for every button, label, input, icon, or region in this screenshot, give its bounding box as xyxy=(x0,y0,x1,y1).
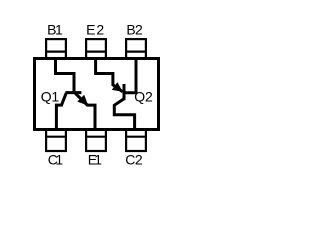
svg-text:C2: C2 xyxy=(125,152,143,168)
svg-text:Q2: Q2 xyxy=(134,89,153,105)
svg-text:E1: E1 xyxy=(88,152,103,168)
svg-text:C1: C1 xyxy=(48,152,64,168)
svg-text:Q1: Q1 xyxy=(41,89,60,105)
svg-text:E2: E2 xyxy=(86,22,104,38)
svg-text:B2: B2 xyxy=(126,22,143,38)
svg-text:B1: B1 xyxy=(47,22,63,38)
